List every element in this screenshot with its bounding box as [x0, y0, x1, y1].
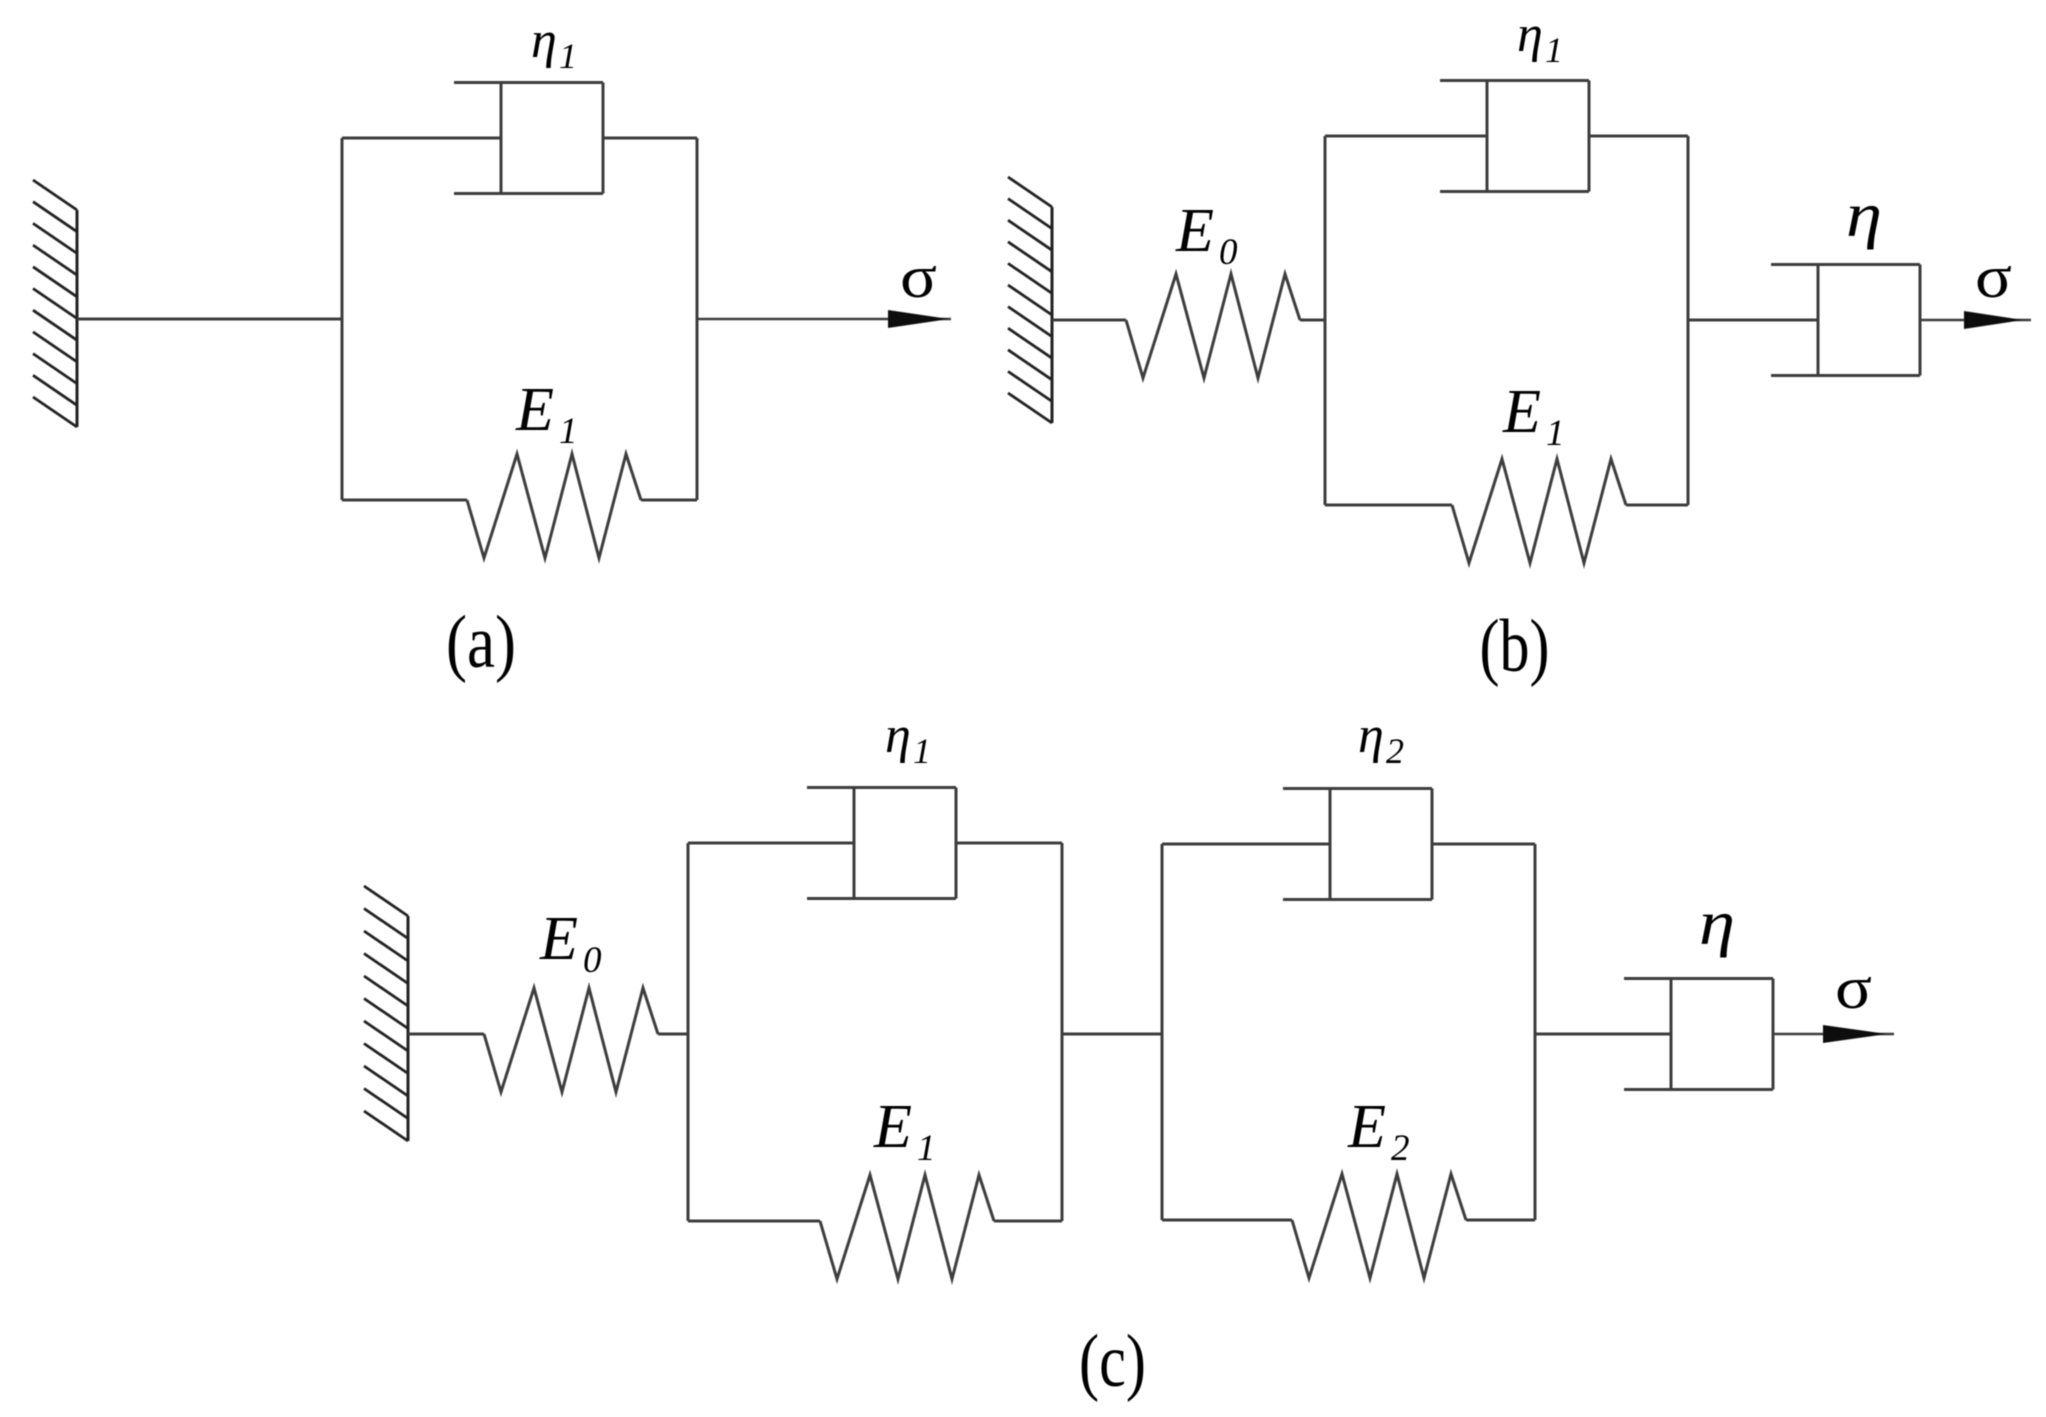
svg-text:(b): (b)	[1480, 605, 1550, 688]
svg-text:0: 0	[583, 940, 602, 981]
svg-text:σ: σ	[1975, 244, 2012, 310]
svg-text:1: 1	[559, 411, 578, 452]
svg-text:1: 1	[913, 731, 931, 771]
svg-text:E: E	[873, 1093, 912, 1161]
svg-text:(c): (c)	[1079, 1320, 1146, 1403]
svg-text:E: E	[1175, 197, 1214, 265]
svg-text:E: E	[515, 376, 554, 444]
svg-text:(a): (a)	[446, 601, 516, 684]
svg-text:η: η	[1358, 707, 1384, 764]
svg-text:E: E	[1347, 1093, 1386, 1161]
svg-text:η: η	[1846, 179, 1882, 250]
svg-text:E: E	[1502, 378, 1541, 446]
svg-text:σ: σ	[900, 244, 937, 310]
svg-text:η: η	[1517, 6, 1543, 63]
svg-text:1: 1	[1546, 413, 1565, 454]
svg-text:E: E	[539, 905, 578, 973]
svg-text:1: 1	[917, 1128, 936, 1169]
svg-text:2: 2	[1391, 1128, 1410, 1169]
svg-text:2: 2	[1386, 731, 1404, 771]
svg-text:σ: σ	[1835, 955, 1872, 1021]
svg-text:1: 1	[559, 36, 577, 76]
svg-text:0: 0	[1219, 232, 1238, 273]
svg-text:η: η	[885, 707, 911, 764]
svg-text:1: 1	[1545, 30, 1563, 70]
svg-text:η: η	[1699, 887, 1735, 958]
svg-text:η: η	[531, 12, 557, 69]
